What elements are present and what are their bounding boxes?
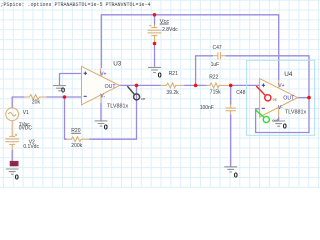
node U3 inverting junction bbox=[63, 95, 67, 99]
svg-text:V-: V- bbox=[100, 94, 105, 100]
wire Vcc top stub bbox=[154, 15, 156, 25]
probe (red) at U4 noninverting input bbox=[256, 86, 271, 101]
svg-text:0V: 0V bbox=[11, 161, 16, 166]
svg-text:20k: 20k bbox=[32, 100, 41, 106]
ground below U3 V- bbox=[95, 121, 108, 126]
svg-text:R22: R22 bbox=[209, 74, 218, 80]
svg-text:0: 0 bbox=[61, 86, 65, 95]
svg-text:U4: U4 bbox=[284, 71, 293, 78]
wire R21 to R22 bbox=[184, 84, 207, 86]
teal selection box around U4 stage bbox=[247, 60, 315, 135]
ground below U4 V- bbox=[272, 121, 285, 126]
svg-text:39.2k: 39.2k bbox=[166, 90, 179, 96]
capacitor C48 bbox=[226, 105, 236, 115]
resistor R20 200k bbox=[67, 137, 90, 142]
svg-text:0: 0 bbox=[234, 170, 238, 179]
svg-text:0VDC: 0VDC bbox=[19, 125, 33, 131]
svg-text:U3: U3 bbox=[113, 60, 122, 67]
wire C47 left branch bbox=[196, 56, 213, 86]
svg-text:0.1Vdc: 0.1Vdc bbox=[23, 144, 39, 150]
wire U3 V- to ground bbox=[100, 103, 102, 121]
svg-text:200k: 200k bbox=[71, 143, 82, 149]
resistor R21 39.2k bbox=[161, 83, 185, 88]
svg-text:715k: 715k bbox=[210, 90, 221, 96]
node R21-R22-C47 junction bbox=[194, 84, 198, 88]
battery V2 bbox=[5, 136, 19, 150]
components (tan) bbox=[5, 25, 297, 151]
ground 0 labels bbox=[15, 71, 287, 182]
probe (green) at U4 inverting input bbox=[256, 110, 269, 122]
resistor R22 715k bbox=[207, 83, 231, 88]
node Vcc rail junction bbox=[153, 13, 157, 17]
wire Vcc bottom to ground bbox=[154, 44, 156, 67]
svg-text:OUT: OUT bbox=[105, 84, 117, 90]
bias voltage box at V2 ground bbox=[10, 161, 19, 166]
svg-text:0: 0 bbox=[283, 122, 287, 131]
pin + U4 bbox=[262, 84, 265, 87]
ground at U3 + input bbox=[53, 86, 66, 91]
svg-text:C47: C47 bbox=[213, 45, 222, 51]
svg-text:0: 0 bbox=[158, 71, 162, 80]
node U3 output junction bbox=[135, 84, 139, 88]
svg-text:100nF: 100nF bbox=[200, 105, 214, 111]
source V1 circle bbox=[6, 108, 19, 121]
wire V+ rail bbox=[12, 15, 309, 167]
svg-text:V-: V- bbox=[278, 105, 283, 111]
ground symbols (gray) bbox=[6, 67, 285, 174]
svg-text:C48: C48 bbox=[236, 90, 245, 96]
V1 lead to V2 bbox=[11, 121, 13, 136]
svg-text:V1: V1 bbox=[23, 110, 29, 116]
wire U4 output bbox=[298, 97, 309, 99]
wire C48 bottom to ground bbox=[230, 115, 232, 167]
wire R22 to U4 noninverting bbox=[230, 84, 259, 86]
svg-text:;PSpice: .options PTRANABSTOL=: ;PSpice: .options PTRANABSTOL=1e-5 PTRAN… bbox=[1, 2, 151, 8]
wire V2 to bias box bbox=[11, 150, 13, 161]
wire V1 to 20k bbox=[12, 97, 24, 108]
svg-text:out: out bbox=[272, 118, 278, 123]
capacitor C47 bbox=[213, 52, 226, 59]
svg-text:0: 0 bbox=[104, 123, 108, 132]
pin + U3 bbox=[84, 72, 87, 75]
pin labels (blue) bbox=[100, 71, 295, 111]
svg-text:0: 0 bbox=[15, 173, 19, 182]
wire U4 V- to ground bbox=[278, 117, 280, 121]
wire feedback down from inverting node bbox=[65, 97, 67, 139]
svg-text:TLV881x: TLV881x bbox=[107, 104, 128, 110]
svg-text:V+: V+ bbox=[100, 71, 106, 77]
node U4 output junction bbox=[307, 96, 311, 100]
svg-text:2.8Vdc: 2.8Vdc bbox=[162, 27, 178, 33]
node Vcc battery bottom bbox=[153, 42, 157, 46]
pin - U4 bbox=[262, 107, 265, 109]
resistor 20k bbox=[24, 95, 46, 100]
junction dots (red) bbox=[63, 13, 311, 99]
svg-text:OUT: OUT bbox=[283, 96, 295, 102]
battery Vcc 2.8Vdc bbox=[148, 25, 162, 44]
wire C47 right to U4 output and inverting feedback bbox=[226, 56, 310, 133]
svg-text:R21: R21 bbox=[169, 71, 178, 77]
svg-text:TLV881x: TLV881x bbox=[285, 110, 306, 116]
op-amp U3 body bbox=[82, 66, 120, 104]
svg-text:1uF: 1uF bbox=[211, 62, 220, 68]
op-amp U4 body bbox=[260, 79, 298, 118]
ground below Vcc battery bbox=[148, 67, 161, 72]
probe at U3 output bbox=[127, 86, 139, 100]
wire C48 top bbox=[230, 85, 232, 104]
node R22-C48 junction bbox=[229, 84, 233, 88]
pin - U3 bbox=[84, 95, 87, 97]
wire 20k to U3 inverting input bbox=[46, 96, 81, 98]
ground below C48 bbox=[224, 167, 237, 172]
ground below V2 bias box bbox=[6, 169, 19, 174]
svg-text:V+: V+ bbox=[278, 83, 284, 89]
wire U3 output bbox=[120, 84, 161, 86]
wire R20 right to output riser bbox=[89, 85, 136, 139]
wire U3 noninverting to ground bbox=[60, 74, 82, 86]
